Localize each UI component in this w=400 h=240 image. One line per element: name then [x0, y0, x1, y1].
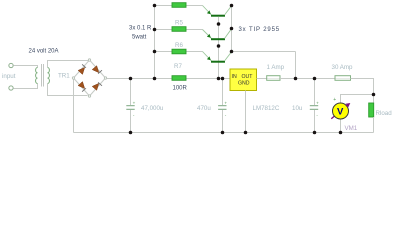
diode D3 bridge bottom-left: [74, 78, 90, 96]
junction base rail: [217, 77, 221, 81]
junction cap47000 ground: [129, 131, 133, 135]
svg-text:+: +: [224, 100, 227, 105]
wire row 2: [155, 29, 203, 31]
fuse F1 1 Amp: [267, 76, 280, 81]
junction meter ground: [339, 131, 343, 135]
resistor Rload: [369, 95, 374, 133]
svg-text:VM1: VM1: [345, 125, 358, 132]
transistor Q3: [203, 52, 232, 62]
svg-text:5watt: 5watt: [132, 35, 147, 41]
wire meter branch: [341, 95, 374, 104]
fuse F2 30 Amp: [335, 76, 351, 81]
junction collector Q3: [230, 50, 234, 54]
junction cap47000 rail: [129, 77, 133, 81]
svg-text:24 volt 20A: 24 volt 20A: [29, 49, 59, 55]
junction cap10 rail: [313, 77, 317, 81]
svg-text:R6: R6: [175, 42, 183, 49]
diode D2 bridge top-right: [90, 60, 106, 78]
transistor Q1: [203, 6, 232, 25]
junction regulator ground: [244, 131, 248, 135]
svg-text:IN: IN: [232, 74, 237, 80]
voltmeter VM1: [331, 97, 350, 119]
junction collector rail: [294, 77, 298, 81]
wire regulator out: [257, 78, 268, 80]
svg-text:470u: 470u: [197, 105, 211, 112]
node bridge minus: [72, 77, 74, 79]
svg-text:R7: R7: [174, 63, 182, 70]
wire collector bus down: [295, 52, 297, 79]
wire secondary top: [48, 61, 89, 68]
input terminal top: [9, 63, 13, 67]
svg-text:47,000u: 47,000u: [141, 105, 164, 112]
wire base bus: [218, 17, 220, 79]
svg-text:input: input: [2, 73, 16, 80]
svg-text:3x 0.1 R: 3x 0.1 R: [129, 26, 152, 32]
svg-text:R5: R5: [175, 20, 183, 27]
junction collector Q1: [230, 4, 234, 8]
wire primary bottom: [14, 84, 38, 89]
svg-text:10u: 10u: [292, 105, 303, 112]
resistor R6: [172, 49, 186, 54]
node bridge plus: [104, 77, 106, 79]
diode D1 bridge top-left: [74, 60, 90, 78]
junction cap10 ground: [313, 131, 317, 135]
resistor R5: [172, 27, 186, 32]
junction bus row3: [153, 50, 157, 54]
capacitor C1 47000u: [126, 79, 135, 133]
svg-text:+: +: [333, 97, 336, 103]
diode D4 bridge bottom-right: [90, 78, 106, 96]
svg-text:3x TIP 2955: 3x TIP 2955: [239, 27, 281, 33]
junction bus row1: [153, 4, 157, 8]
capacitor C2 470u: [218, 79, 227, 133]
wire positive rail: [107, 78, 230, 80]
wire bottom rail: [74, 132, 374, 134]
wire output corner: [351, 79, 374, 95]
resistor R4: [172, 3, 186, 8]
junction base Q1: [217, 22, 221, 26]
junction cap470 rail: [221, 77, 225, 81]
svg-text:LM7812C: LM7812C: [253, 105, 280, 112]
svg-text:OUT: OUT: [242, 74, 254, 80]
wire bridge negative down: [73, 80, 75, 133]
junction bus rail: [153, 77, 157, 81]
svg-text:Rload: Rload: [376, 110, 393, 117]
junction collector Q2: [230, 27, 234, 31]
wire out rail: [280, 78, 335, 80]
regulator U1 LM7812C: [230, 69, 257, 91]
svg-text:1 Amp: 1 Amp: [267, 64, 285, 71]
svg-text:TR1: TR1: [58, 73, 70, 80]
wire collector bus vertical: [231, 6, 233, 52]
capacitor C3 10u: [310, 79, 319, 133]
junction cap470 ground: [221, 131, 225, 135]
wire secondary bottom: [48, 84, 88, 96]
resistor R7: [172, 76, 186, 81]
svg-text:GND: GND: [238, 81, 250, 87]
svg-text:30 Amp: 30 Amp: [332, 64, 354, 71]
svg-text:+: +: [316, 100, 319, 105]
input terminal bottom: [9, 86, 13, 90]
wire row 1: [155, 5, 203, 7]
wire emitter bus: [154, 6, 156, 79]
wire regulator ground: [245, 91, 247, 133]
junction base Q2: [217, 44, 221, 48]
node bridge AC bottom: [88, 95, 90, 97]
svg-text:V: V: [337, 107, 344, 118]
wire meter to ground: [340, 119, 342, 133]
transistor Q2: [203, 29, 232, 39]
wire primary top: [14, 66, 38, 68]
svg-text:100R: 100R: [173, 86, 188, 92]
wire collector bus horizontal: [232, 51, 296, 53]
svg-text:+: +: [133, 100, 136, 105]
transformer TR1: [36, 64, 50, 87]
node bridge AC top: [88, 59, 90, 61]
junction load top: [372, 93, 376, 97]
junction bus row2: [153, 28, 157, 32]
wire row 3: [155, 51, 203, 53]
